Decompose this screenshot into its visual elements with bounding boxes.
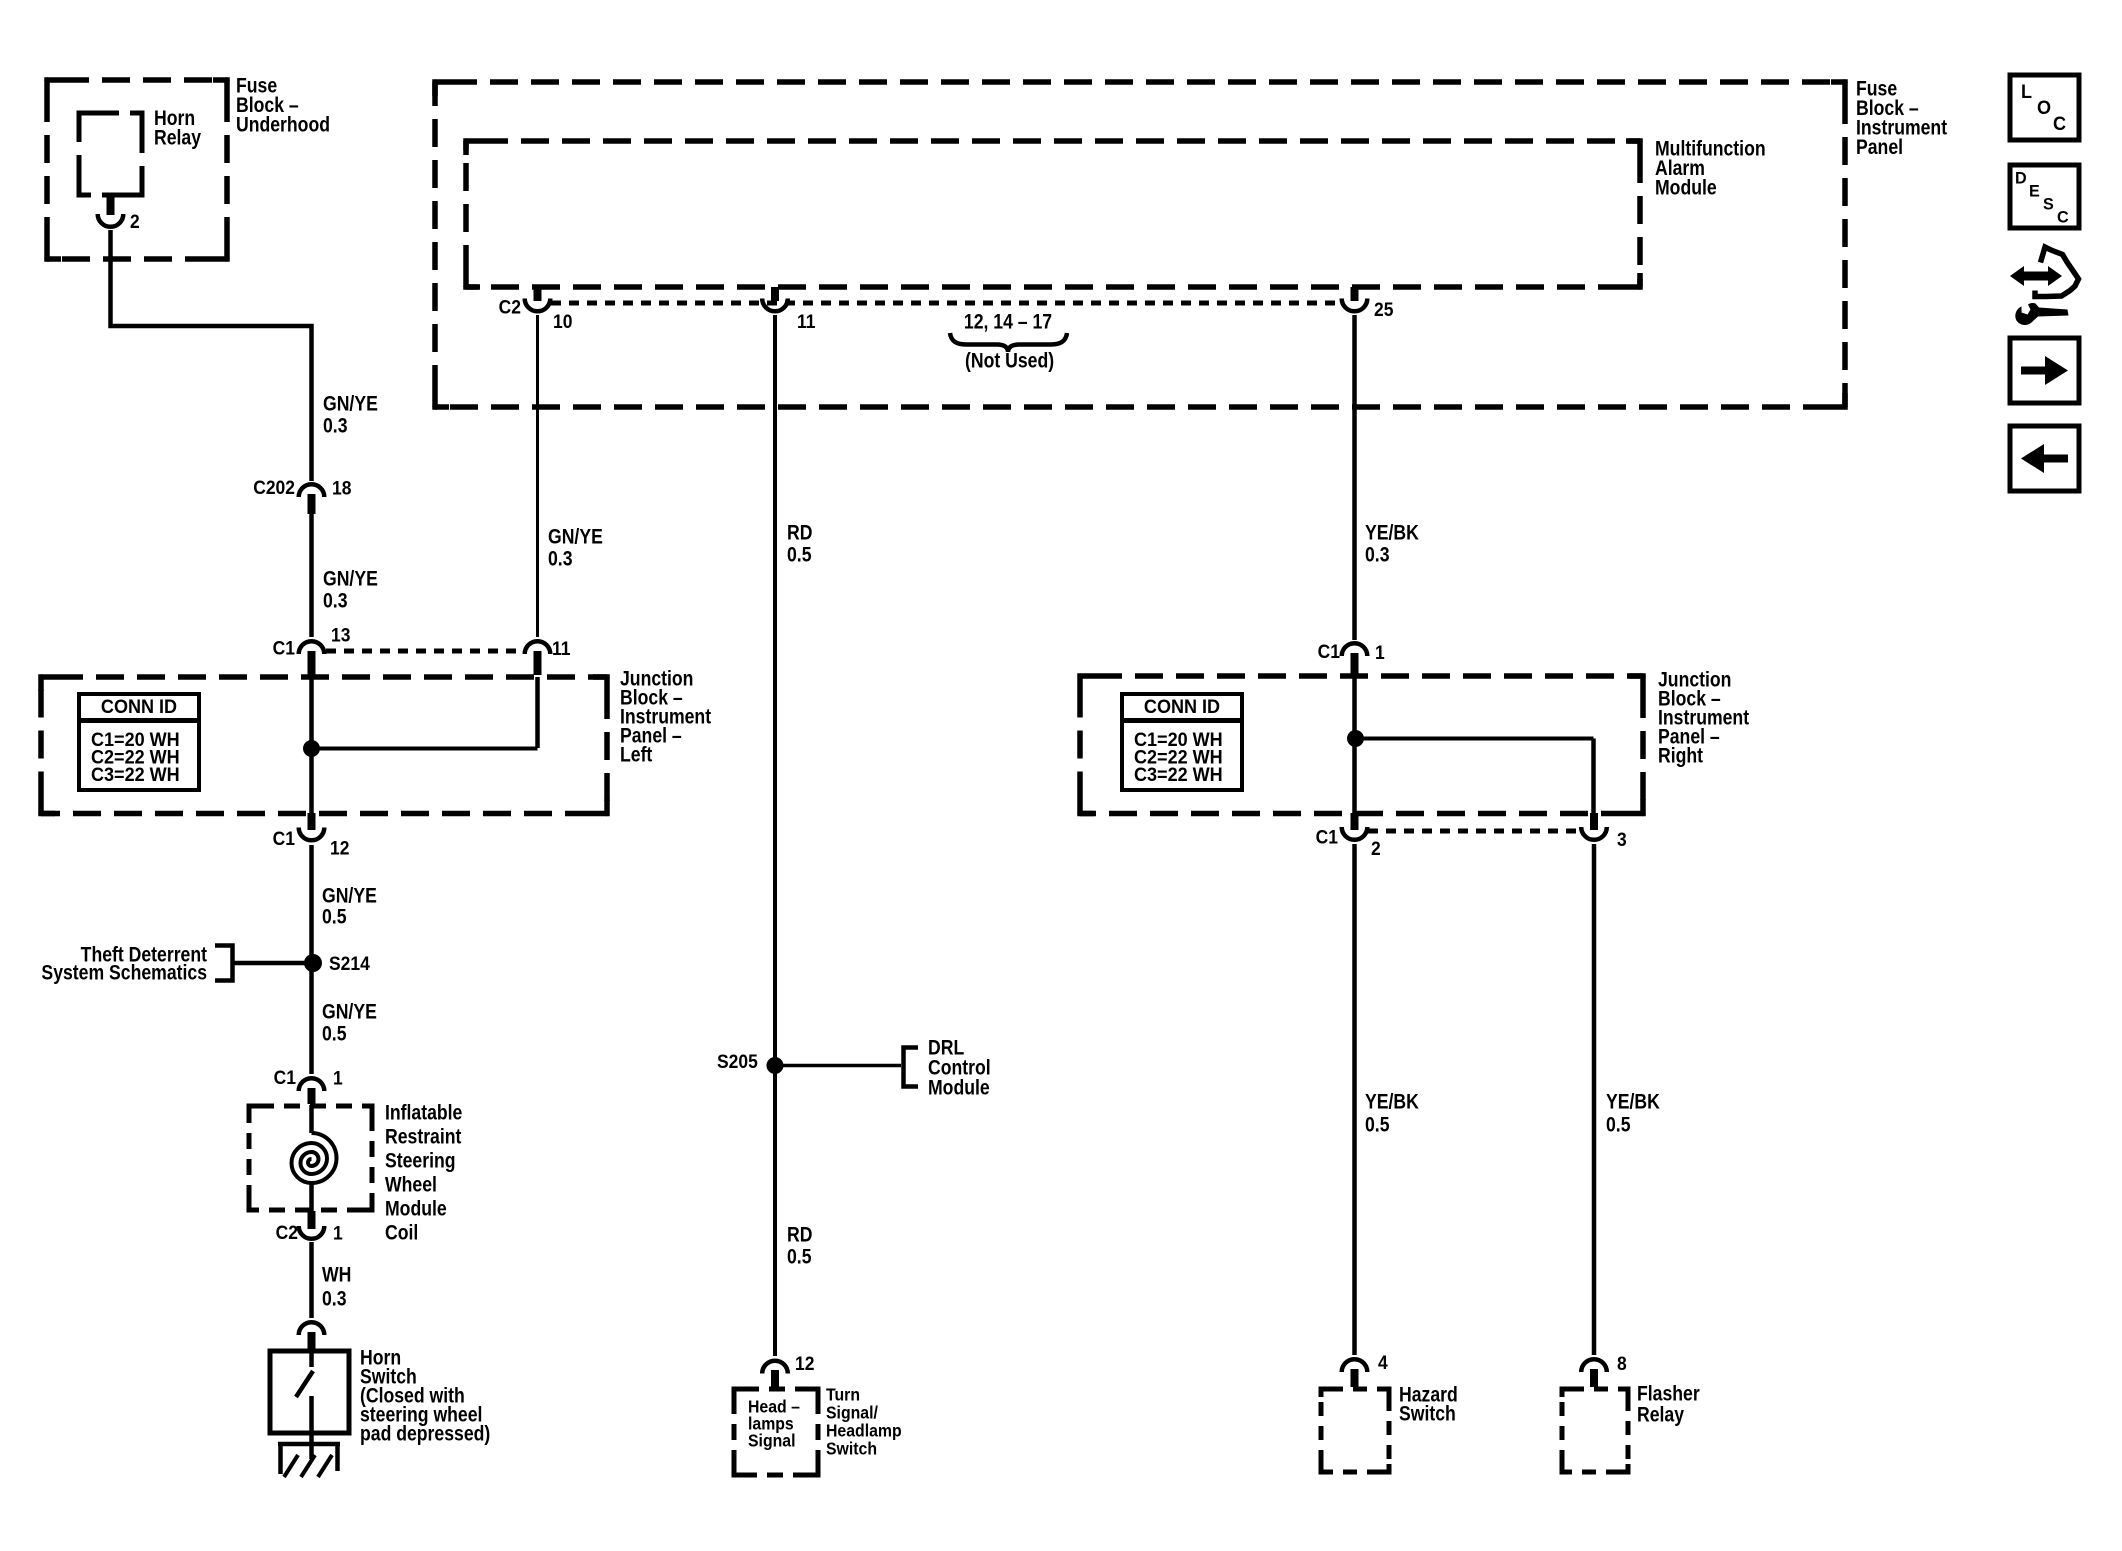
svg-text:C3=22 WH: C3=22 WH — [1134, 764, 1223, 786]
svg-text:E: E — [2029, 181, 2040, 200]
svg-text:Relay: Relay — [154, 126, 201, 150]
svg-text:Right: Right — [1658, 744, 1704, 768]
svg-text:YE/BK: YE/BK — [1365, 1090, 1419, 1114]
svg-text:Signal: Signal — [748, 1430, 795, 1450]
svg-text:GN/YE: GN/YE — [323, 567, 378, 591]
svg-text:3: 3 — [1617, 828, 1627, 850]
svg-text:YE/BK: YE/BK — [1606, 1090, 1660, 1114]
svg-text:WH: WH — [322, 1263, 351, 1287]
svg-text:2: 2 — [1371, 837, 1381, 859]
svg-text:Steering: Steering — [385, 1149, 456, 1173]
svg-text:Left: Left — [620, 743, 653, 767]
svg-text:Module: Module — [928, 1076, 990, 1100]
svg-text:C1: C1 — [1318, 640, 1340, 662]
svg-text:0.5: 0.5 — [787, 543, 812, 567]
svg-text:C1: C1 — [1316, 826, 1338, 848]
svg-text:CONN ID: CONN ID — [101, 696, 177, 718]
svg-text:Module: Module — [1655, 176, 1717, 200]
svg-text:Restraint: Restraint — [385, 1125, 462, 1149]
svg-text:12: 12 — [795, 1352, 814, 1374]
svg-text:C: C — [2053, 113, 2066, 135]
svg-text:12: 12 — [330, 837, 349, 859]
svg-text:11: 11 — [797, 310, 815, 332]
svg-text:GN/YE: GN/YE — [323, 392, 378, 416]
svg-text:0.3: 0.3 — [323, 589, 348, 613]
svg-text:O: O — [2037, 97, 2051, 119]
svg-text:Underhood: Underhood — [236, 113, 330, 137]
svg-text:(Not Used): (Not Used) — [965, 349, 1054, 373]
svg-text:11: 11 — [552, 637, 570, 659]
svg-text:0.5: 0.5 — [1606, 1113, 1631, 1137]
svg-text:4: 4 — [1378, 1351, 1389, 1373]
svg-text:0.3: 0.3 — [323, 414, 348, 438]
svg-text:C1: C1 — [273, 637, 295, 659]
svg-text:GN/YE: GN/YE — [548, 525, 603, 549]
svg-text:C202: C202 — [253, 476, 295, 498]
svg-text:GN/YE: GN/YE — [322, 1000, 377, 1024]
svg-text:Panel: Panel — [1856, 136, 1903, 160]
svg-text:CONN ID: CONN ID — [1144, 696, 1220, 718]
svg-text:0.5: 0.5 — [787, 1245, 812, 1269]
svg-text:System Schematics: System Schematics — [41, 961, 207, 985]
svg-text:S: S — [2043, 194, 2054, 213]
svg-text:0.5: 0.5 — [322, 1022, 347, 1046]
svg-text:Switch: Switch — [826, 1438, 877, 1458]
svg-text:Relay: Relay — [1637, 1403, 1684, 1427]
svg-text:25: 25 — [1374, 298, 1393, 320]
svg-text:RD: RD — [787, 1223, 812, 1247]
svg-text:S205: S205 — [717, 1050, 758, 1072]
svg-text:Coil: Coil — [385, 1221, 418, 1245]
svg-text:12, 14 – 17: 12, 14 – 17 — [964, 310, 1052, 334]
svg-text:YE/BK: YE/BK — [1365, 521, 1419, 545]
svg-text:1: 1 — [1375, 641, 1385, 663]
svg-text:13: 13 — [331, 624, 350, 646]
svg-text:0.3: 0.3 — [548, 547, 573, 571]
svg-text:2: 2 — [130, 210, 140, 232]
svg-text:8: 8 — [1617, 1352, 1627, 1374]
svg-text:1: 1 — [333, 1067, 343, 1089]
svg-text:0.5: 0.5 — [1365, 1113, 1390, 1137]
svg-text:1: 1 — [333, 1222, 343, 1244]
svg-text:S214: S214 — [329, 952, 371, 974]
svg-text:C1: C1 — [273, 827, 295, 849]
svg-text:pad depressed): pad depressed) — [360, 1422, 490, 1446]
svg-text:0.3: 0.3 — [1365, 543, 1390, 567]
svg-text:Inflatable: Inflatable — [385, 1101, 463, 1125]
svg-text:C1: C1 — [274, 1066, 296, 1088]
svg-text:Wheel: Wheel — [385, 1173, 437, 1197]
svg-text:C3=22 WH: C3=22 WH — [91, 764, 180, 786]
svg-text:C2: C2 — [499, 296, 521, 318]
svg-text:Switch: Switch — [1399, 1402, 1456, 1426]
svg-text:C2: C2 — [276, 1221, 298, 1243]
svg-text:D: D — [2015, 168, 2027, 187]
svg-text:18: 18 — [332, 477, 351, 499]
svg-text:0.5: 0.5 — [322, 905, 347, 929]
svg-text:Module: Module — [385, 1197, 447, 1221]
svg-text:10: 10 — [553, 310, 572, 332]
svg-text:C: C — [2057, 207, 2069, 226]
svg-text:0.3: 0.3 — [322, 1287, 347, 1311]
svg-text:L: L — [2021, 81, 2032, 103]
svg-text:RD: RD — [787, 521, 812, 545]
